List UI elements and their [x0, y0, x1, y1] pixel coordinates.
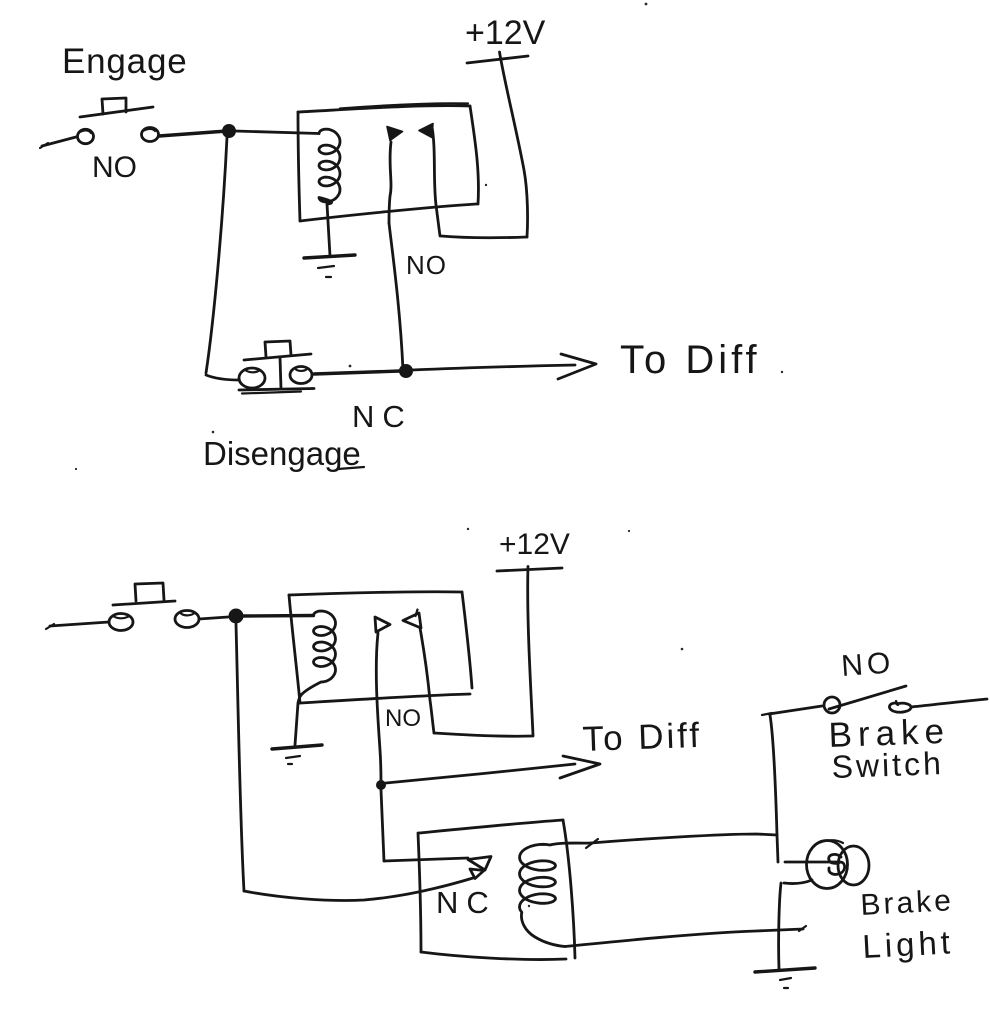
- svg-text:To Diff: To Diff: [582, 716, 703, 759]
- +12V supply 2 bar: [497, 568, 562, 571]
- label Engage: [62, 42, 187, 81]
- wire K1 NO down to node B: [389, 223, 403, 370]
- lamp bottom lead: [784, 880, 812, 884]
- +12V supply 2 label: [499, 528, 570, 561]
- wire brake switch down to lamp: [770, 715, 778, 862]
- wire K2 coil to ground: [295, 695, 302, 746]
- brake switch left wire: [762, 706, 822, 715]
- svg-text:NC: NC: [352, 399, 413, 434]
- node A junction: [222, 124, 236, 138]
- svg-text:NO: NO: [406, 250, 447, 280]
- label NO SW1: [92, 151, 137, 184]
- wire node A down to SW2: [206, 137, 239, 380]
- brake switch arm: [829, 686, 906, 709]
- lamp filament: [829, 854, 845, 874]
- relay K2 NO contact arm: [375, 617, 390, 783]
- pushbutton SW2 cap: [239, 341, 314, 394]
- svg-text:To Diff: To Diff: [620, 338, 761, 382]
- arrowhead To Diff 1: [558, 354, 596, 379]
- label NO K2 contact: [385, 705, 421, 732]
- brake switch contact circle: [824, 697, 840, 713]
- wire K3 coil bottom to ground node: [565, 926, 806, 947]
- ground K2: [272, 745, 322, 764]
- wire SW2 to node B: [314, 371, 400, 374]
- pushbutton SW1 left lead: [40, 137, 76, 148]
- arrowhead To Diff 2: [560, 756, 600, 778]
- brake switch right wire: [911, 699, 987, 707]
- wire node B to arrow To Diff: [412, 365, 575, 370]
- node B junction: [399, 364, 413, 378]
- pushbutton SW1 Engage cap: [80, 98, 153, 117]
- label NO brake switch: [840, 646, 895, 683]
- relay K1 NO contact arm: [387, 127, 403, 224]
- relay K1 coil: [319, 129, 340, 204]
- svg-text:NO: NO: [840, 646, 895, 683]
- svg-text:NC: NC: [436, 885, 497, 920]
- pushbutton SW3 cap: [113, 583, 175, 605]
- label Brake Light: [860, 884, 955, 965]
- wire node C to relay K2 coil: [243, 614, 314, 618]
- pushbutton SW1 left contact: [78, 129, 94, 143]
- relay K1 common contact arm: [419, 124, 440, 237]
- relay K1 box: [298, 103, 478, 221]
- svg-text:+12V: +12V: [465, 14, 546, 52]
- relay K3 box: [418, 820, 575, 960]
- wire K3 coil top to lamp node: [586, 834, 777, 848]
- label NC K3: [436, 885, 497, 920]
- wire lamp down to ground: [779, 883, 781, 969]
- label NO K1 contact: [406, 250, 447, 280]
- pushbutton SW2 Disengage left contact: [239, 368, 265, 388]
- scan speckles: [75, 3, 783, 908]
- pushbutton SW1 right contact: [142, 128, 159, 142]
- wire node D to arrow To Diff 2: [386, 764, 575, 783]
- brake switch right contact: [889, 701, 911, 712]
- svg-text:Switch: Switch: [831, 745, 944, 785]
- svg-text:Brake: Brake: [860, 884, 955, 922]
- +12V supply 1 bar: [467, 56, 528, 63]
- relay K2 box: [289, 592, 472, 703]
- +12V supply 1 label: [465, 14, 546, 52]
- svg-text:+12V: +12V: [499, 528, 570, 561]
- label Disengage: [203, 435, 364, 472]
- label To Diff 2: [582, 716, 703, 759]
- ground brake: [755, 968, 815, 988]
- pushbutton SW3 left lead: [46, 622, 109, 629]
- wire +12V 2 to K2 common: [434, 567, 533, 737]
- wire K1 coil to ground: [327, 204, 330, 256]
- wire SW3 to node C: [199, 617, 228, 619]
- label To Diff 1: [620, 338, 761, 382]
- label Brake switch: [828, 712, 951, 785]
- relay K3 coil: [520, 843, 592, 947]
- svg-text:NO: NO: [385, 705, 421, 732]
- wire +12V to K1 common: [441, 52, 528, 238]
- svg-text:Light: Light: [861, 923, 954, 965]
- pushbutton SW3 right contact: [175, 611, 199, 628]
- relay K2 common contact arm: [403, 610, 434, 734]
- svg-text:Engage: Engage: [62, 42, 187, 81]
- svg-text:NO: NO: [92, 151, 137, 184]
- label NC SW2: [352, 399, 413, 434]
- wire node C down and right to K3 NC: [236, 624, 473, 901]
- svg-text:Disengage: Disengage: [203, 435, 361, 472]
- wire SW1 to node A: [159, 131, 227, 136]
- pushbutton SW2 right contact: [290, 367, 312, 384]
- wire node D down to K3 NC contact: [381, 790, 468, 861]
- wire node A to relay K1 coil: [235, 131, 319, 134]
- node C junction: [229, 609, 244, 624]
- node D junction: [376, 780, 386, 790]
- lamp top lead: [785, 861, 838, 864]
- pushbutton SW3 left contact: [109, 614, 133, 631]
- lamp bulb: [807, 840, 870, 888]
- relay K2 coil: [302, 611, 336, 695]
- relay K3 NC contact arrowhead: [468, 857, 491, 879]
- ground K1: [304, 255, 355, 277]
